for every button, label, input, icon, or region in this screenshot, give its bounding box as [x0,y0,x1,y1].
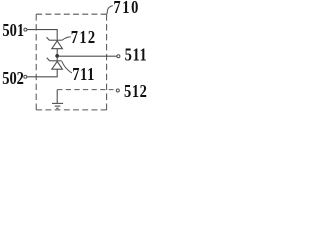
wire diode 711 to 502 [27,69,57,77]
node A junction dot [55,54,59,58]
wire 501 to diode top [27,30,57,40]
wire diode 712 to node A [56,49,58,61]
svg-text:512: 512 [124,83,148,101]
svg-text:501: 501 [2,22,24,40]
wire node A to terminal 511 [57,55,116,57]
terminal 501 circle [24,28,27,31]
dashed wire ground to terminal 512 [57,89,113,91]
terminal 502 circle [24,75,27,78]
svg-text:511: 511 [125,46,148,64]
leader for 712 [62,37,71,41]
svg-text:710: 710 [113,0,140,17]
ground [52,90,63,109]
svg-text:712: 712 [71,29,97,47]
diode 711 (zener) [47,58,63,69]
svg-text:502: 502 [2,70,24,88]
leader for 710 [107,6,113,15]
svg-text:711: 711 [72,66,95,84]
leader for 711 [62,61,72,73]
terminal 511 circle [117,55,120,58]
dashed box 710 outline [36,14,106,110]
terminal 512 circle [116,89,119,92]
diode 712 (zener) [47,37,63,49]
